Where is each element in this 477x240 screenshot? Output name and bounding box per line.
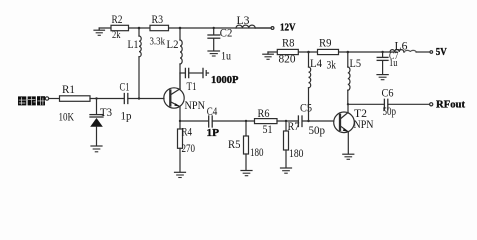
node RFout terminal [430,103,433,106]
svg-text:C6: C6 [382,87,394,99]
wire C1 to T1 base [128,98,164,100]
svg-text:R6: R6 [258,108,270,120]
svg-text:2k: 2k [112,29,121,41]
svg-text:1p: 1p [121,111,132,123]
node C6 / collector junction [347,103,349,105]
resistor R4 [178,126,196,172]
svg-text:R2: R2 [112,14,123,26]
svg-text:50p: 50p [383,106,397,118]
svg-text:1u: 1u [221,51,231,63]
svg-text:1u: 1u [389,57,398,69]
svg-text:L5: L5 [350,58,362,70]
capacitor C2 [208,28,233,63]
node 12V terminal [271,27,274,30]
inductor L1 [128,28,142,99]
svg-text:R1: R1 [62,84,75,96]
svg-text:C4: C4 [207,106,218,118]
transistor T1 [164,73,206,129]
svg-text:R5: R5 [228,139,241,151]
inductor L2 [167,28,183,89]
resistor R1 [59,84,91,124]
wire C5 to T2 base [302,120,334,122]
svg-text:C2: C2 [220,28,233,40]
transistor T2 [334,104,374,154]
capacitor 1000P feedback pair [180,68,239,85]
node C2 top junction [213,27,215,29]
capacitor C6 [382,87,397,118]
node L4 bottom junction [307,120,309,122]
ground top-left of supply rail [94,28,105,35]
node L4 top junction [307,51,310,54]
capacitor C4 [207,106,220,139]
ground under T2 emitter [343,154,354,159]
wire 12V top rail [99,27,271,29]
node R5 junction [245,120,247,122]
ground under T3 [91,146,102,152]
wire collector to C6 [348,103,384,105]
svg-text:180: 180 [289,148,304,160]
ground under R4 [175,172,186,177]
svg-text:RFout: RFout [436,99,465,111]
node T3 junction [95,97,97,99]
inductor L6 [390,41,430,53]
inductor L3 [236,15,271,28]
resistor R5 [228,121,264,170]
svg-text:C5: C5 [300,103,312,115]
wire C6 to RFout [388,103,429,105]
node L1 bottom junction [138,97,140,99]
svg-text:L3: L3 [237,15,250,27]
node 5V terminal [430,51,433,54]
node A junction R2/R3/L1 [138,27,141,30]
12V label [280,22,296,33]
ground left of second rail [263,52,274,59]
ground under 1u cap [377,75,388,80]
svg-text:L2: L2 [167,39,179,51]
ground under C2 [208,51,220,56]
varactor diode T3 [90,99,112,146]
svg-text:1P: 1P [207,128,220,139]
wire C4 to R6 [213,120,255,122]
resistor R8 [277,38,298,66]
svg-text:T3: T3 [100,107,112,119]
svg-text:1000P: 1000P [211,74,239,86]
svg-text:L4: L4 [310,58,322,70]
inductor L4 [309,52,323,121]
resistor R2 [111,14,129,41]
svg-text:NPN: NPN [185,100,206,112]
wire emitter to C4 [180,120,208,122]
RFout label [436,99,465,111]
wire input to R1 [49,98,60,100]
5V label [436,47,447,58]
svg-text:R9: R9 [319,38,332,50]
svg-text:T1: T1 [187,81,197,93]
node L5 top junction [347,51,350,54]
resistor R6 [255,108,278,136]
ground under R5 [241,171,252,176]
svg-text:5V: 5V [436,47,447,58]
node R7 junction [285,120,287,122]
压控端 label (stylized CJK) [18,96,45,105]
wire R1 to C1 [90,98,124,100]
node L2 top junction [179,27,182,30]
svg-text:50p: 50p [309,125,326,137]
svg-text:10K: 10K [59,110,75,124]
svg-text:3k: 3k [327,60,337,72]
node T1 emitter / C4 branch [179,120,181,122]
capacitor C1 [120,81,132,122]
svg-text:3.3k: 3.3k [150,36,166,48]
svg-text:R3: R3 [152,14,164,26]
svg-text:NPN: NPN [354,119,375,131]
wire 5V second rail [268,51,397,53]
ground under R7 [281,168,292,173]
resistor R9 [318,38,339,72]
capacitor 1u bypass at 5V [377,51,398,74]
svg-text:C1: C1 [120,81,130,93]
node 压控端 input terminal [45,97,48,100]
svg-text:R8: R8 [282,38,295,50]
wire R6 to C5 [277,120,298,122]
svg-text:270: 270 [182,143,196,155]
node 1u cap top junction [381,51,383,53]
svg-text:180: 180 [250,147,264,159]
inductor L5 [348,52,361,104]
svg-text:51: 51 [263,124,273,136]
svg-text:12V: 12V [280,22,296,33]
capacitor C5 [298,103,325,137]
svg-text:820: 820 [279,54,296,66]
svg-text:L1: L1 [128,39,139,51]
svg-text:L6: L6 [395,41,408,53]
resistor R3 [150,14,169,48]
svg-text:R4: R4 [182,126,193,138]
resistor R7 [284,121,304,168]
